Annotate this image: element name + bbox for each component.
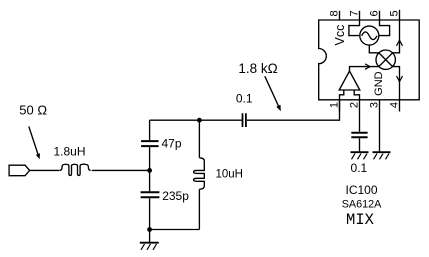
svg-text:MIX: MIX [346,211,375,229]
wire 0.1 to pin 1 [247,100,340,120]
svg-text:0.1: 0.1 [236,91,253,105]
ground pin 3 [373,152,391,159]
svg-text:235p: 235p [162,189,189,203]
amplifier internal [339,71,360,100]
wire pin 7 to oscillator [349,20,360,36]
pin 1 [329,100,341,112]
inductor L1 [60,164,91,175]
svg-text:1.8uH: 1.8uH [53,145,85,159]
node A junction [147,168,152,173]
svg-text:10uH: 10uH [216,169,244,181]
oscillator internal [360,26,379,45]
svg-text:47p: 47p [162,137,182,151]
svg-text:GND: GND [373,71,385,96]
svg-text:3: 3 [369,102,381,108]
svg-text:7: 7 [349,10,361,16]
annotation arrow to pin 1 [265,76,281,111]
wire top rail [150,119,242,121]
svg-text:IC100: IC100 [345,183,377,197]
pin 7 [349,10,361,20]
pin 8 [329,10,341,20]
pin 2 [349,100,361,132]
capacitor 47p [141,120,159,170]
svg-text:0.1: 0.1 [351,161,368,175]
wire mixer to pin 5 [393,10,403,53]
svg-text:Vcc: Vcc [333,25,347,46]
capacitor 0.1 coupling [243,113,246,127]
ground tank [140,230,159,250]
svg-text:2: 2 [349,102,361,108]
wire source to L1 [30,169,60,171]
wire mixer to pin 4 [393,67,403,112]
wire amplifier to mixer [350,64,379,71]
ground pin 2 bypass [351,152,369,159]
capacitor 235p [141,170,160,229]
svg-text:SA612A: SA612A [342,198,382,210]
node top junction [197,118,202,123]
node bottom junction [147,227,152,232]
pin 6 [369,10,381,20]
IC U1 SA612A body [319,20,420,100]
wire bottom rail [150,229,200,231]
svg-text:50 Ω: 50 Ω [19,103,47,118]
wire L1 to node A [92,169,150,171]
connector J1 50-ohm source [9,165,30,176]
svg-text:1.8 kΩ: 1.8 kΩ [238,61,277,76]
svg-text:8: 8 [329,10,341,16]
wire oscillator to mixer [369,45,379,53]
annotation arrow to 50 ohm source [29,126,40,159]
wire pin 6 to oscillator [379,20,390,36]
mixer internal [376,50,395,69]
inductor L2 10uH [194,120,205,229]
capacitor 0.1 bypass [351,133,367,152]
pin 3 [369,100,381,152]
svg-text:1: 1 [329,102,341,108]
svg-text:6: 6 [369,10,381,16]
